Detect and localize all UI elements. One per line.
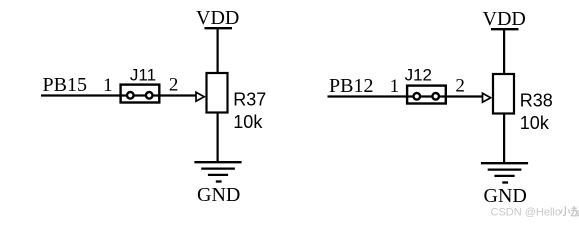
svg-text:J12: J12 [405,65,432,84]
svg-text:VDD: VDD [483,8,526,30]
svg-text:R38: R38 [520,91,553,111]
svg-text:1: 1 [390,76,400,97]
svg-text:CSDN @Hello: CSDN @Hello [491,207,561,219]
svg-text:1: 1 [103,75,113,96]
svg-text:VDD: VDD [196,7,239,29]
svg-text:2: 2 [169,75,179,96]
svg-text:10k: 10k [233,112,263,132]
svg-text:R37: R37 [233,90,266,110]
svg-text:PB12: PB12 [329,75,373,97]
svg-text:J11: J11 [130,66,156,85]
svg-text:GND: GND [197,184,240,206]
svg-text:2: 2 [455,76,465,97]
svg-text:PB15: PB15 [43,74,87,96]
svg-text:GND: GND [484,185,527,207]
svg-text:10k: 10k [520,113,550,133]
